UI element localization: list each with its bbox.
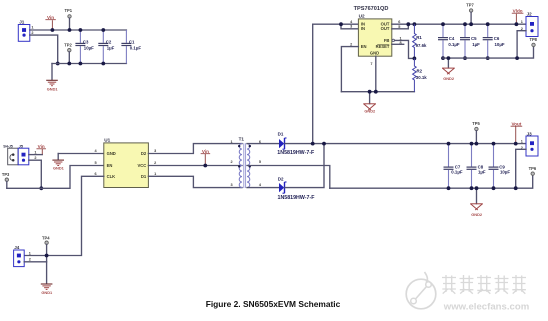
wire T1 pin5 return xyxy=(247,166,330,189)
U1 pin numbers xyxy=(94,149,156,176)
node C8 bottom xyxy=(470,186,474,190)
svg-text:C2: C2 xyxy=(106,39,112,44)
svg-text:U2: U2 xyxy=(359,14,365,19)
svg-text:2: 2 xyxy=(34,156,36,160)
svg-text:TP4: TP4 xyxy=(42,235,50,240)
net label Vin (VCC) xyxy=(201,149,211,165)
U2 pin names xyxy=(361,22,390,56)
node TP2 junction xyxy=(67,62,71,66)
svg-text:TP7: TP7 xyxy=(466,2,474,7)
svg-text:6: 6 xyxy=(398,20,400,24)
test point TP2 xyxy=(64,42,72,52)
node TP4/CLK junction xyxy=(45,254,49,258)
node LDO branch junction xyxy=(311,142,315,146)
node U2 GND junction xyxy=(374,90,378,94)
connector J5 xyxy=(18,144,36,164)
capacitor C8 xyxy=(467,144,486,189)
svg-text:1: 1 xyxy=(154,172,156,176)
wire GND1 stub (U1) xyxy=(57,154,59,160)
caption xyxy=(206,299,341,309)
capacitor C6 xyxy=(483,24,505,58)
wire U2 OUT rail xyxy=(392,23,526,25)
wire T1 pin6 to D1 xyxy=(247,143,279,145)
diode D2 1N5819HW-7-F xyxy=(278,177,316,201)
node VCC/Vin junction xyxy=(203,164,207,168)
node R1 top junction xyxy=(413,22,417,26)
wire U2 pin3 link xyxy=(341,24,358,29)
capacitor C5 xyxy=(460,24,480,58)
wire Vout rail up to LDO input xyxy=(312,24,314,143)
wire TP2 stub xyxy=(68,52,70,64)
svg-text:TP5: TP5 xyxy=(472,121,480,126)
node GND2 junction (U2) xyxy=(368,90,372,94)
svg-text:RESET: RESET xyxy=(376,44,390,49)
svg-text:3: 3 xyxy=(350,25,352,29)
node C8 top xyxy=(470,142,474,146)
test point TP3 xyxy=(2,172,10,181)
svg-text:GND1: GND1 xyxy=(41,290,53,295)
svg-text:Vin: Vin xyxy=(38,144,45,149)
wire FB to divider xyxy=(395,40,415,58)
test point TP4 xyxy=(42,235,50,244)
svg-text:C6: C6 xyxy=(494,36,500,41)
wire U1 VCC to T1 pin2 xyxy=(148,165,242,167)
node J5 pin2 junction xyxy=(39,186,43,190)
svg-text:U1: U1 xyxy=(104,138,110,143)
svg-text:2: 2 xyxy=(350,42,352,46)
svg-text:R1: R1 xyxy=(416,35,422,40)
svg-text:OUT: OUT xyxy=(381,26,390,31)
svg-text:GND1: GND1 xyxy=(47,87,59,92)
connector J2 xyxy=(521,12,538,37)
wire U1 D2 to T1 pin1 xyxy=(148,144,242,154)
wire U1 CLK to J4 xyxy=(24,176,104,255)
ground GND2 (output) xyxy=(470,204,483,217)
wire J1 pin2 down to ground rail xyxy=(30,35,58,63)
svg-text:TP8: TP8 xyxy=(529,37,537,42)
node TP7 junction xyxy=(469,22,473,26)
svg-text:GND2: GND2 xyxy=(471,212,483,217)
svg-text:10µF: 10µF xyxy=(495,42,505,47)
node C6 bottom xyxy=(486,56,490,60)
svg-text:EN: EN xyxy=(107,163,113,168)
test point TP1 xyxy=(65,8,73,18)
connector J1 xyxy=(18,20,33,42)
node TP5 junction xyxy=(475,142,479,146)
svg-text:GND: GND xyxy=(107,151,116,156)
test point TP6 xyxy=(529,166,537,175)
svg-text:5: 5 xyxy=(259,160,261,164)
net label Vout xyxy=(511,121,523,143)
node C7 bottom xyxy=(447,186,451,190)
node C5 top xyxy=(463,22,467,26)
capacitor C4 xyxy=(438,24,460,58)
svg-text:10µF: 10µF xyxy=(84,45,94,50)
wire TP1 stub xyxy=(69,18,71,30)
U2 pin numbers xyxy=(350,20,402,66)
node C3 bottom xyxy=(79,62,83,66)
svg-text:GND2: GND2 xyxy=(443,76,455,81)
wire J4 pin2 xyxy=(24,261,46,263)
svg-text:C4: C4 xyxy=(449,36,455,41)
svg-text:D1: D1 xyxy=(141,174,147,179)
svg-text:1: 1 xyxy=(34,150,36,154)
node J3 gnd junction xyxy=(514,186,518,190)
node C4 top xyxy=(441,22,445,26)
wire U1 D1 to T1 pin3 xyxy=(148,176,242,187)
svg-text:www.elecfans.com: www.elecfans.com xyxy=(443,302,530,313)
wire LDO IN rail xyxy=(313,23,359,25)
svg-text:1N5819HW-7-F: 1N5819HW-7-F xyxy=(278,195,316,201)
svg-text:Figure 2. SN6505xEVM Schematic: Figure 2. SN6505xEVM Schematic xyxy=(206,299,341,309)
svg-text:GND2: GND2 xyxy=(364,108,376,113)
node J2 gnd junction xyxy=(515,56,519,60)
wire J5 pin2 to EN net xyxy=(29,160,42,188)
svg-text:J4: J4 xyxy=(14,245,20,250)
svg-text:Vldo: Vldo xyxy=(513,8,523,13)
wire GND2 stub (LDO) xyxy=(447,58,449,68)
connector J4 xyxy=(14,245,31,266)
capacitor C2 xyxy=(98,30,114,64)
svg-text:J3: J3 xyxy=(527,131,533,136)
svg-text:5: 5 xyxy=(94,161,96,165)
wire J5 pin1 xyxy=(29,154,43,156)
svg-text:0.1µF: 0.1µF xyxy=(451,170,463,175)
node C9 bottom xyxy=(492,186,496,190)
svg-text:30.1k: 30.1k xyxy=(416,75,427,80)
svg-text:EN: EN xyxy=(361,44,367,49)
svg-text:1: 1 xyxy=(521,139,523,143)
svg-text:R2: R2 xyxy=(417,68,423,73)
wire U2 GND pin stub xyxy=(375,56,377,91)
diode D1 1N5819HW-7-F xyxy=(277,132,315,156)
test point TP5 xyxy=(472,121,480,131)
resistor R2 xyxy=(413,58,428,91)
svg-text:Vout: Vout xyxy=(511,121,521,126)
ground GND1 (U1) xyxy=(52,160,64,170)
svg-text:2: 2 xyxy=(29,258,31,262)
ground GND2 (U2) xyxy=(363,104,376,114)
node C2 bottom xyxy=(101,62,105,66)
svg-text:C1: C1 xyxy=(129,39,135,44)
node C2 top xyxy=(101,28,105,32)
wire GND2 stub (output) xyxy=(476,188,478,203)
net label Vldo xyxy=(512,8,524,23)
wire TP7 stub xyxy=(470,12,472,24)
wire U2 pin8 stub xyxy=(392,43,404,45)
svg-text:C5: C5 xyxy=(471,36,477,41)
svg-text:TP1: TP1 xyxy=(65,8,73,13)
svg-text:1: 1 xyxy=(29,252,31,256)
svg-text:IN: IN xyxy=(361,26,365,31)
svg-text:CLK: CLK xyxy=(107,174,116,179)
wire Vout bottom rail xyxy=(330,175,533,188)
net label Vin (J5) xyxy=(36,144,46,154)
wire J3 pin2 to bottom rail xyxy=(516,149,526,188)
svg-text:3: 3 xyxy=(230,183,232,187)
node C7 top xyxy=(447,142,451,146)
svg-text:J2: J2 xyxy=(527,12,533,17)
svg-text:D2: D2 xyxy=(141,151,147,156)
svg-text:J1: J1 xyxy=(19,20,25,25)
ground GND1 (input) xyxy=(46,80,58,91)
svg-text:2: 2 xyxy=(230,160,232,164)
wire EN net xyxy=(7,166,104,189)
svg-text:Vin: Vin xyxy=(47,15,54,20)
watermark elecfans xyxy=(406,272,529,313)
node C3 top xyxy=(79,28,83,32)
svg-text:1: 1 xyxy=(31,26,33,30)
ground GND2 (LDO) xyxy=(442,68,455,81)
U1 pin names xyxy=(107,151,147,179)
node Vout junction xyxy=(514,142,518,146)
capacitor C1 xyxy=(121,30,141,64)
svg-text:0.1µF: 0.1µF xyxy=(130,45,142,50)
svg-text:SH-J5: SH-J5 xyxy=(3,144,13,148)
connector SH-J5 shunt xyxy=(3,144,18,164)
svg-text:VCC: VCC xyxy=(137,163,146,168)
op-amp U2 TPS76701QD body xyxy=(354,6,392,56)
wire U2 pin5 link xyxy=(392,24,409,29)
svg-text:0.1µF: 0.1µF xyxy=(448,42,460,47)
svg-text:10µF: 10µF xyxy=(500,170,510,175)
wire J1 pin1 to input rail xyxy=(30,29,127,31)
wire J2 pin2 to gnd rail xyxy=(517,31,526,58)
U2 FB bubble xyxy=(392,39,394,41)
svg-text:1µF: 1µF xyxy=(107,45,115,50)
wire U1 GND xyxy=(58,153,104,155)
svg-text:T1: T1 xyxy=(239,137,245,142)
node D2/Vout junction xyxy=(322,142,326,146)
wire U2 EN to gnd xyxy=(341,47,358,92)
svg-text:J5: J5 xyxy=(19,144,23,148)
node Vin junction xyxy=(51,28,55,32)
svg-text:C3: C3 xyxy=(83,39,89,44)
wire TP5 stub xyxy=(475,131,477,144)
node junction pin2/ground rail xyxy=(56,62,60,66)
resistor R1 xyxy=(413,24,427,58)
node R1/R2 junction xyxy=(413,57,417,61)
test point TP8 xyxy=(529,37,537,47)
svg-text:GND1: GND1 xyxy=(53,166,65,171)
node C6 top xyxy=(486,22,490,26)
wire TP3 stub xyxy=(6,181,8,188)
wire TP4 down to GND1 xyxy=(46,244,48,283)
capacitor C3 xyxy=(75,30,94,64)
svg-text:1µF: 1µF xyxy=(472,42,480,47)
node TP1 junction xyxy=(68,28,72,32)
capacitor C9 xyxy=(489,144,511,189)
svg-text:1N5819HW-7-F: 1N5819HW-7-F xyxy=(277,150,315,156)
svg-text:TP6: TP6 xyxy=(529,166,537,171)
ground rail input section xyxy=(52,63,126,65)
wire GND2 stub (U2) xyxy=(369,92,371,104)
svg-text:2: 2 xyxy=(154,161,156,165)
node GND2 junction (LDO) xyxy=(447,56,451,60)
svg-text:TP2: TP2 xyxy=(64,42,72,47)
svg-text:2: 2 xyxy=(31,31,33,35)
node C4 bottom xyxy=(441,56,445,60)
ground GND1 (J4) xyxy=(41,284,53,295)
node IN pins junction xyxy=(339,22,343,26)
svg-text:1: 1 xyxy=(230,140,232,144)
node C9 top xyxy=(492,142,496,146)
node C5 bottom xyxy=(463,56,467,60)
svg-text:D1: D1 xyxy=(278,132,284,137)
wire U2 ground bus xyxy=(341,91,414,93)
svg-text:TP3: TP3 xyxy=(2,172,10,177)
svg-text:97.6k: 97.6k xyxy=(416,43,427,48)
svg-text:D2: D2 xyxy=(278,177,284,182)
transformer T1 xyxy=(230,137,261,189)
wire ground rail to GND1 xyxy=(51,64,53,80)
svg-text:FB: FB xyxy=(384,38,390,43)
net label Vin (input) xyxy=(45,15,55,30)
svg-text:1: 1 xyxy=(521,20,523,24)
connector J3 xyxy=(521,131,538,156)
transistor-driver U1 SN6505 body xyxy=(104,138,149,188)
node GND2 junction (output) xyxy=(475,186,479,190)
svg-text:3: 3 xyxy=(154,149,156,153)
svg-text:7: 7 xyxy=(370,62,372,66)
svg-text:TPS76701QD: TPS76701QD xyxy=(354,6,389,12)
node Vldo junction xyxy=(515,22,519,26)
capacitor C7 xyxy=(444,144,463,189)
wire D2 cathode up to Vout rail xyxy=(285,144,324,188)
node OUT pins junction xyxy=(406,22,410,26)
svg-text:1µF: 1µF xyxy=(478,170,486,175)
LDO ground rail xyxy=(443,47,534,59)
test point TP7 xyxy=(466,2,474,12)
svg-text:Vin: Vin xyxy=(202,149,209,154)
svg-text:6: 6 xyxy=(94,172,96,176)
svg-text:GND: GND xyxy=(370,50,379,55)
wire Vout top rail xyxy=(285,143,526,145)
wire T1 pin4 to D2 xyxy=(247,187,279,189)
